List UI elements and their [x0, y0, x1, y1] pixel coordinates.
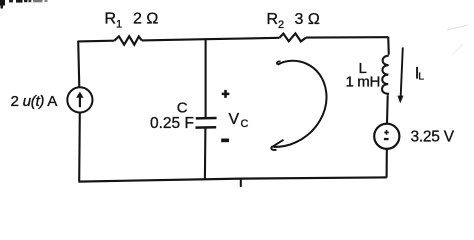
mesh current loop arrow (clockwise arc in right mesh) — [271, 61, 326, 150]
svg-text:0.25 F: 0.25 F — [150, 115, 194, 132]
wire: top rail, node to R2 — [206, 38, 280, 39]
wire: right branch, inductor down to voltage source — [386, 95, 389, 123]
wire: left branch, top corner down to current source — [78, 41, 79, 88]
svg-text:C: C — [241, 118, 249, 130]
scan artifacts at top-left (cut-off text), drawn before labelled elements — [0, 0, 468, 55]
label: capacitor + polarity — [222, 90, 230, 98]
label: IL current — [415, 63, 424, 82]
svg-text:C: C — [177, 99, 188, 116]
svg-text:L: L — [418, 71, 424, 83]
svg-text:R: R — [105, 11, 117, 28]
inductor L = 1 mH (coil) — [382, 56, 389, 96]
label: R1 reference designator — [105, 11, 123, 31]
wire: voltage source down to bottom-right corner — [386, 150, 388, 178]
svg-text:2 u(t) A: 2 u(t) A — [11, 93, 59, 110]
label: Vc node voltage — [229, 111, 249, 130]
wire: top rail, top-left corner to R1 — [78, 40, 114, 43]
label: R2 reference designator — [267, 11, 285, 31]
capacitor C = 0.25 F (two plates) — [196, 118, 217, 128]
wire: bottom rail — [78, 177, 386, 181]
resistor R2 (zigzag) — [279, 33, 306, 41]
wire: top rail, R1 to capacitor-branch node — [142, 39, 206, 40]
wire: top rail, R2 to top-right corner — [306, 36, 388, 38]
svg-text:2 Ω: 2 Ω — [133, 11, 158, 28]
svg-text:1: 1 — [116, 19, 122, 31]
svg-text:3.25 V: 3.25 V — [411, 128, 455, 145]
wire: capacitor branch, bottom plate down to bottom rail — [204, 128, 207, 179]
svg-text:1 mH: 1 mH — [346, 73, 380, 90]
wire: right branch, top-right corner down to inductor — [387, 37, 390, 55]
label: capacitor - polarity — [221, 139, 229, 143]
current arrow IL (downward beside inductor) — [398, 47, 404, 103]
wire: bottom stub at capacitor-branch foot (cut off at image edge) — [240, 179, 242, 188]
resistor R1 (zigzag) — [114, 36, 142, 44]
svg-text:V: V — [229, 111, 240, 128]
svg-text:R: R — [267, 11, 279, 28]
svg-text:2: 2 — [278, 19, 284, 31]
current source I1 = 2u(t) A (circle with up arrow) — [67, 87, 92, 112]
wire: capacitor branch, top node down to top plate — [205, 38, 207, 117]
voltage source V1 = 3.25 V (circle with +/-) — [374, 124, 399, 149]
svg-text:3 Ω: 3 Ω — [295, 11, 320, 28]
wire: left branch, current source down to bottom-left corner — [78, 113, 81, 182]
